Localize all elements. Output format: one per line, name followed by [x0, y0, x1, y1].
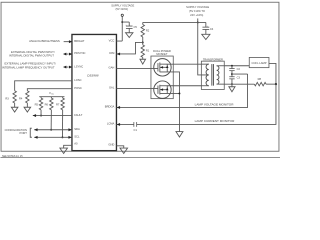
wire 5V node to C5	[122, 22, 129, 26]
wire midpoint to voltage monitor	[232, 73, 248, 75]
wire Q1 drain to primary top	[167, 63, 201, 65]
wire R3 to ground	[14, 103, 16, 107]
svg-text:CC: CC	[51, 93, 54, 95]
wire Q1 source down	[167, 72, 180, 132]
svg-text:INTERNAL LAMP FREQUENCY OUTPUT: INTERNAL LAMP FREQUENCY OUTPUT	[2, 65, 55, 69]
svg-text:R8: R8	[258, 77, 262, 81]
label C2	[237, 67, 241, 71]
pin GND label	[108, 143, 114, 147]
label R7	[56, 103, 60, 107]
wire GAH gate line	[116, 67, 151, 69]
transformer T1 core	[212, 64, 214, 86]
svg-text:R5: R5	[35, 103, 39, 107]
svg-text:ANALOG BRIGHTNESS: ANALOG BRIGHTNESS	[29, 39, 60, 43]
label R4	[19, 96, 23, 100]
wire R8 line to ground	[231, 84, 233, 87]
svg-text:R7: R7	[56, 103, 60, 107]
label C5	[133, 25, 137, 29]
svg-text:C4: C4	[210, 27, 214, 31]
label CCFL LAMP	[252, 61, 267, 65]
figure border frame	[1, 2, 279, 151]
wire Q2 drain to primary bottom	[167, 85, 201, 87]
svg-text:R6: R6	[45, 103, 49, 107]
junction C2-C3	[231, 73, 233, 75]
junction lamp current node	[275, 83, 277, 85]
pin LOSC label	[74, 78, 81, 82]
svg-text:GAL: GAL	[109, 86, 115, 90]
label R5	[35, 103, 39, 107]
wire LSYNC bidirectional arrow	[63, 66, 72, 69]
label ANALOG BRIGHTNESS	[29, 39, 60, 43]
wire R5 to FAULT line	[40, 110, 42, 116]
resistor R6	[50, 97, 53, 110]
label LAMP CURRENT MONITOR	[195, 119, 235, 123]
resistor R4	[26, 91, 29, 103]
pin VCC label	[109, 38, 115, 42]
svg-text:PDSYNC: PDSYNC	[74, 51, 85, 55]
svg-text:R1: R1	[146, 49, 150, 53]
note text	[2, 156, 23, 158]
wire SCL	[34, 136, 72, 139]
svg-text:GAH: GAH	[109, 66, 115, 70]
label INTERNAL DIGITAL PWM OUTPUT	[9, 54, 54, 58]
pin DIM label	[109, 51, 115, 55]
wire 24V rail	[143, 21, 206, 23]
wire C4 stem	[205, 22, 207, 27]
ground below R4	[24, 107, 31, 112]
junction C2 top	[231, 65, 233, 67]
wire C2-C3 midpoint	[231, 71, 233, 77]
ground below R1	[140, 59, 146, 64]
IC U1 name label	[87, 73, 98, 77]
ground below C5	[126, 33, 133, 38]
wire C5 to ground	[128, 28, 130, 32]
dual MOSFET box	[151, 56, 173, 99]
svg-text:C2: C2	[237, 67, 241, 71]
transistor Q1 symbol	[151, 62, 169, 72]
wire secondary bottom to R8	[224, 83, 254, 85]
junction sources	[179, 93, 181, 95]
transformer T1 secondary leads	[217, 66, 225, 84]
pin SCL label	[74, 135, 80, 139]
wire R4 to ground	[26, 103, 28, 107]
svg-text:C3: C3	[237, 75, 241, 79]
svg-text:BRIGHT: BRIGHT	[74, 39, 85, 43]
svg-text:(5V ±10%): (5V ±10%)	[116, 7, 129, 11]
svg-text:MOSFET: MOSFET	[156, 52, 167, 56]
pin A0 label	[74, 142, 78, 146]
wire lamp voltage monitor	[116, 74, 247, 109]
wire R6 to SDA line	[50, 110, 52, 130]
wire R7 to SCL line	[61, 110, 63, 137]
wire SDA	[34, 128, 72, 131]
wire C2 stem	[231, 66, 233, 69]
svg-text:(5V ±10% TO: (5V ±10% TO	[189, 9, 205, 13]
wire current monitor to C1	[116, 123, 133, 126]
capacitor C3	[229, 77, 234, 79]
label C4	[210, 27, 214, 31]
junction R6-SDA	[50, 129, 52, 131]
svg-text:CCFL LAMP: CCFL LAMP	[252, 61, 267, 65]
resistor R1	[141, 42, 144, 59]
transistor Q2 body	[154, 81, 171, 98]
svg-text:R2: R2	[146, 29, 150, 33]
wire POSC to R4	[27, 89, 72, 91]
svg-text:LCMA: LCMA	[107, 122, 115, 126]
junction R2-R1-DIM	[142, 42, 144, 44]
pin LSYNC label	[74, 64, 83, 68]
pin GAH label	[109, 66, 115, 70]
transformer T1 box	[201, 61, 224, 89]
svg-text:R4: R4	[19, 96, 23, 100]
svg-text:24V +10%): 24V +10%)	[190, 13, 203, 17]
svg-text:DS3988: DS3988	[87, 73, 98, 77]
pin PDSYNC label	[74, 51, 85, 55]
svg-text:SUPPLY VOLTAGE: SUPPLY VOLTAGE	[186, 5, 209, 9]
resistor R5	[39, 97, 42, 110]
wire 24V to transformer center tap	[198, 22, 202, 74]
label MOSFET	[156, 52, 167, 56]
wire lamp current monitor	[137, 84, 276, 124]
pin BRIGHT label	[74, 39, 85, 43]
label CONFIGURATION	[5, 128, 27, 132]
terminal 5V supply	[121, 14, 123, 16]
wire PDSYNC bidirectional arrow	[63, 53, 72, 56]
resistor R7	[61, 97, 64, 110]
svg-text:BRDGA: BRDGA	[105, 105, 115, 109]
ground at A0	[60, 148, 68, 153]
capacitor C2	[229, 69, 234, 71]
pin SDA label	[74, 127, 80, 131]
wire GND pin to ground	[116, 146, 123, 148]
svg-text:C1: C1	[134, 128, 138, 132]
svg-text:GND: GND	[108, 143, 114, 147]
svg-text:FAULT: FAULT	[74, 113, 83, 117]
label DUAL POWER	[153, 49, 171, 53]
label R1	[146, 49, 150, 53]
resistor R8	[254, 82, 266, 85]
svg-text:DIM: DIM	[109, 51, 115, 55]
wire C3 to R8 line	[231, 79, 233, 84]
wire A0 to ground	[64, 145, 72, 148]
label SUPPLY VOLTAGE 24V	[186, 5, 209, 9]
transistor Q1 body	[154, 59, 171, 76]
ground sources	[176, 132, 183, 138]
label 5V tolerance	[116, 7, 129, 11]
svg-text:PORT: PORT	[20, 131, 28, 135]
wire 5V supply to VCC	[116, 16, 122, 41]
wire Q2 source join	[167, 92, 180, 94]
pin BRDGA label	[105, 105, 115, 109]
label C3	[237, 75, 241, 79]
wire GAL gate line	[116, 87, 151, 89]
resistor R2	[141, 22, 144, 42]
label C1	[134, 128, 138, 132]
svg-text:INTERNAL DIGITAL PWM OUTPUT: INTERNAL DIGITAL PWM OUTPUT	[9, 54, 54, 58]
label INTERNAL LAMP FREQUENCY OUTPUT	[2, 65, 55, 69]
pin GAL label	[109, 86, 115, 90]
transistor Q2 symbol	[151, 85, 169, 95]
label R6	[45, 103, 49, 107]
wire BRIGHT input arrow	[64, 40, 73, 43]
CCFL lamp box	[249, 57, 269, 67]
svg-text:C5: C5	[133, 25, 137, 29]
capacitor C5	[125, 25, 132, 29]
ground below C4	[202, 34, 210, 39]
junction R5-FAULT	[40, 115, 42, 117]
wire 24V supply stem	[197, 18, 199, 22]
IC U1 DS3988 outline	[72, 34, 117, 150]
label EXTERNAL DIGITAL PWM INPUT	[11, 50, 55, 54]
transformer T1 primary winding	[206, 64, 209, 86]
wire VCC rail	[39, 96, 64, 98]
junction 5V node	[121, 21, 123, 23]
junction C3-R8 line	[231, 83, 233, 85]
svg-text:R3: R3	[5, 96, 9, 100]
wire LOSC to R3	[15, 81, 72, 91]
configuration port bracket	[30, 128, 32, 137]
svg-text:LSYNC: LSYNC	[74, 64, 83, 68]
capacitor C4	[202, 25, 209, 29]
wire DIM to divider	[116, 42, 142, 55]
label R3	[5, 96, 9, 100]
svg-text:SCL: SCL	[74, 135, 80, 139]
label TRANSFORMER	[203, 57, 223, 61]
wire R8 to node	[266, 83, 276, 85]
svg-text:LAMP CURRENT MONITOR: LAMP CURRENT MONITOR	[195, 119, 235, 123]
capacitor C1	[134, 122, 137, 127]
label R8	[258, 77, 262, 81]
svg-text:LAMP VOLTAGE MONITOR: LAMP VOLTAGE MONITOR	[195, 102, 235, 106]
wire lamp to current sense	[269, 63, 276, 84]
pin FAULT label	[74, 113, 83, 117]
ground on R8 line	[229, 87, 235, 92]
wire secondary top to lamp	[224, 65, 249, 67]
pin LCMA label	[107, 122, 115, 126]
wire FAULT output	[33, 114, 72, 117]
svg-text:LOSC: LOSC	[74, 78, 81, 82]
svg-text:POSC: POSC	[74, 86, 82, 90]
svg-text:SUPPLY VOLTAGE: SUPPLY VOLTAGE	[111, 4, 134, 8]
junction R7-SCL	[62, 136, 64, 138]
pin POSC label	[74, 86, 82, 90]
label 24V tolerance line2	[190, 13, 203, 17]
label EXTERNAL LAMP FREQUENCY INPUT	[4, 62, 55, 66]
ground at GND pin	[120, 148, 128, 153]
label 24V tolerance line1	[189, 9, 205, 13]
ground below R3	[11, 107, 18, 112]
wire C4 to ground	[205, 29, 207, 34]
label LAMP VOLTAGE MONITOR	[195, 102, 235, 106]
svg-text:SDA: SDA	[74, 127, 80, 131]
label R2	[146, 29, 150, 33]
transformer T1 primary leads	[201, 64, 208, 86]
label SUPPLY VOLTAGE 5V	[111, 4, 134, 8]
resistor R3	[13, 91, 16, 103]
svg-text:VCC: VCC	[109, 38, 115, 42]
transformer T1 secondary winding	[217, 66, 219, 84]
junction 24V node	[197, 22, 199, 24]
svg-text:A0: A0	[74, 142, 78, 146]
label VCC pull-up rail	[49, 91, 55, 96]
bottom rule	[0, 157, 280, 159]
label PORT	[20, 131, 28, 135]
